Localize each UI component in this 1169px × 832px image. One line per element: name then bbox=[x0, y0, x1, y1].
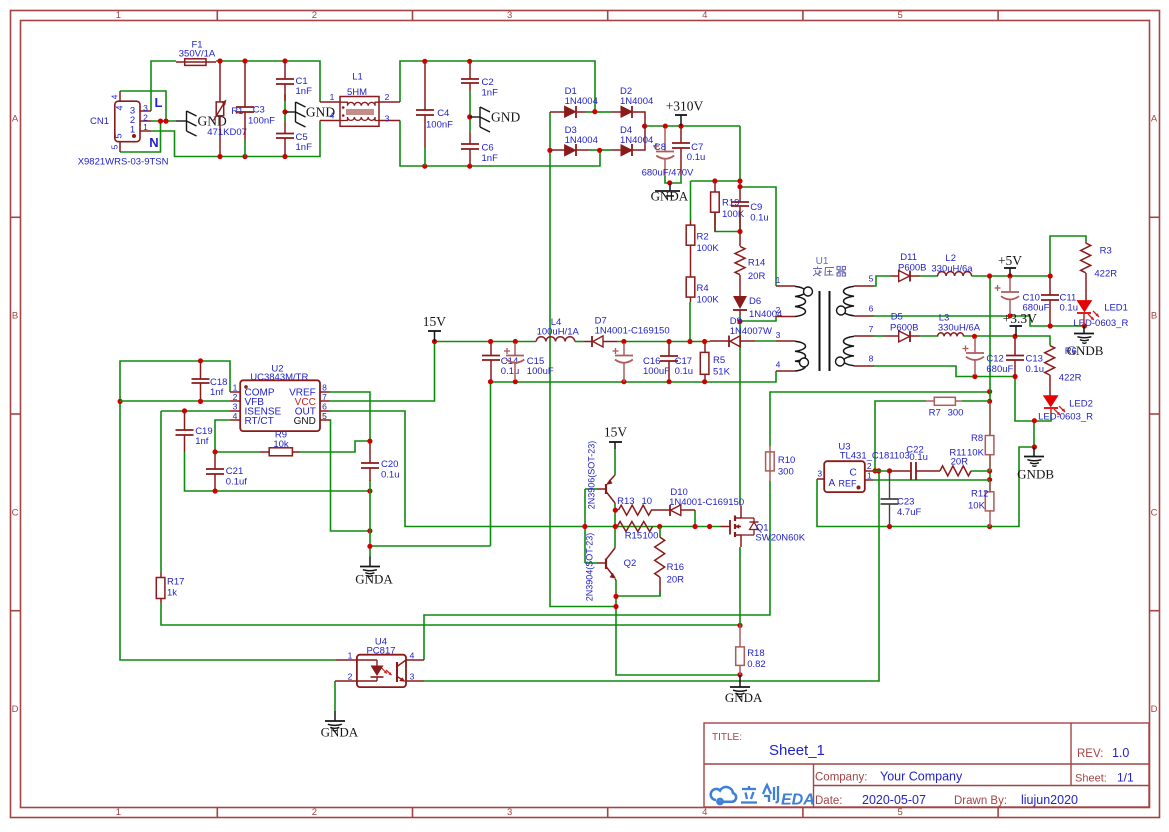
svg-text:D: D bbox=[1151, 704, 1158, 715]
wire net: TL431 anode row (pin3 to C23 bottom to R12 bottom) bbox=[817, 479, 990, 527]
wire net: TL431 cathode row (pin2, C22-20R to +5V column) bbox=[873, 470, 890, 472]
wire net: CN1 shield/earth (pins 2,4,5 to GND flag) bbox=[151, 120, 176, 122]
svg-text:8: 8 bbox=[322, 383, 327, 393]
svg-text:5: 5 bbox=[897, 10, 902, 21]
capacitor C2 bbox=[469, 63, 471, 80]
MOSFET Q1 bbox=[721, 526, 731, 528]
svg-text:R16: R16 bbox=[667, 562, 684, 573]
wire net: central GNDA column and link to primary ground rail bbox=[369, 480, 371, 557]
svg-text:4: 4 bbox=[110, 94, 120, 99]
wire net: +310V rail (bridge output, C8 C7, R19 R2 column, transformer pin1) bbox=[645, 125, 740, 127]
wire net: AC line L (CN1 pin3 to fuse to filter top rail) bbox=[151, 61, 176, 111]
svg-text:1: 1 bbox=[143, 122, 148, 132]
svg-text:GNDA: GNDA bbox=[321, 725, 359, 740]
wire net: COMP net (U2 pin1, C18 top, down to U4 pin1) bbox=[120, 361, 336, 660]
capacitor C6 bbox=[469, 132, 471, 144]
svg-text:4: 4 bbox=[702, 10, 707, 21]
wire net: R19/C9 bottom to R14 bbox=[715, 212, 740, 232]
svg-text:20R: 20R bbox=[748, 271, 766, 282]
resistor R10 bbox=[769, 452, 771, 481]
electrolytic capacitor C12 bbox=[974, 338, 976, 353]
svg-text:1nF: 1nF bbox=[482, 88, 499, 99]
svg-text:350V/1A: 350V/1A bbox=[179, 49, 216, 60]
svg-text:0.1u: 0.1u bbox=[1060, 303, 1079, 314]
svg-text:3: 3 bbox=[233, 402, 238, 412]
wire net: bridge negative rail (D1 D3 anodes down to Q2 emitter / R16 / GNDA rail) bbox=[549, 112, 551, 150]
wire net: RT/CT node (U2 pin4, C21 top, R9 left) bbox=[215, 420, 230, 452]
svg-text:5: 5 bbox=[114, 133, 124, 138]
wire net: ISENSE net (U2 pin3, C19, R17, sense row to R18 top) bbox=[161, 410, 230, 412]
fuse F1 bbox=[176, 61, 216, 63]
svg-text:15V: 15V bbox=[604, 425, 628, 440]
inductor L2 bbox=[938, 272, 972, 276]
svg-text:R4: R4 bbox=[697, 283, 709, 294]
svg-text:1: 1 bbox=[776, 275, 781, 285]
svg-text:10K: 10K bbox=[967, 448, 985, 459]
power flag 15V (driver) bbox=[614, 442, 616, 449]
svg-text:1: 1 bbox=[330, 92, 335, 102]
svg-text:422R: 422R bbox=[1059, 373, 1082, 384]
svg-text:1: 1 bbox=[233, 383, 238, 393]
svg-text:2: 2 bbox=[312, 807, 317, 818]
svg-text:4.7uF: 4.7uF bbox=[897, 507, 921, 518]
svg-text:0.1u: 0.1u bbox=[1026, 364, 1045, 375]
resistor R15 bbox=[617, 522, 653, 532]
wire net: +5V rail (D11, L2, C10, C11, R3 loop, +5V column with R8 R12 divider) bbox=[920, 275, 938, 277]
resistor R11 20R body bbox=[940, 466, 971, 476]
svg-text:C: C bbox=[850, 468, 857, 479]
capacitor C18 bbox=[200, 362, 202, 379]
svg-text:20R: 20R bbox=[667, 575, 685, 586]
resistor R3 bbox=[1085, 242, 1087, 243]
resistor R7 bbox=[926, 400, 934, 402]
ground GNDA at R18 bbox=[739, 675, 741, 687]
svg-text:X9821WRS-03-9TSN: X9821WRS-03-9TSN bbox=[78, 157, 169, 168]
svg-text:L: L bbox=[155, 95, 163, 110]
svg-text:C6: C6 bbox=[482, 143, 494, 154]
svg-text:1k: 1k bbox=[167, 588, 177, 599]
svg-text:0.1u: 0.1u bbox=[750, 213, 769, 224]
svg-text:U1: U1 bbox=[816, 256, 829, 267]
svg-text:100uF: 100uF bbox=[527, 366, 554, 377]
svg-text:SW20N60K: SW20N60K bbox=[755, 533, 805, 544]
svg-text:GNDA: GNDA bbox=[355, 572, 393, 587]
svg-text:2: 2 bbox=[776, 305, 781, 315]
diode D7 bbox=[584, 341, 592, 343]
diode D4 bbox=[611, 149, 621, 151]
resistor R12 bbox=[989, 481, 991, 492]
LED LED2 bbox=[1044, 396, 1058, 407]
svg-text:P600B: P600B bbox=[898, 263, 927, 274]
capacitor C19 bbox=[184, 412, 186, 430]
svg-text:3: 3 bbox=[507, 10, 512, 21]
common-mode choke L1 bbox=[340, 97, 379, 127]
electrolytic capacitor C10 bbox=[1009, 278, 1011, 293]
svg-text:B: B bbox=[1151, 310, 1157, 321]
wire net: C8 C7 negative to GNDA bbox=[665, 176, 681, 183]
svg-text:422R: 422R bbox=[1094, 269, 1117, 280]
ground GNDA at C8 C7 bbox=[669, 183, 671, 191]
svg-text:C: C bbox=[12, 507, 19, 518]
capacitor C4 bbox=[424, 63, 426, 111]
capacitor C23 bbox=[889, 472, 891, 499]
svg-text:Sheet_1: Sheet_1 bbox=[769, 742, 825, 759]
svg-text:6: 6 bbox=[869, 304, 874, 314]
svg-text:GNDA: GNDA bbox=[651, 189, 689, 204]
svg-text:1: 1 bbox=[348, 651, 353, 661]
capacitor C9 bbox=[739, 188, 741, 202]
diode D10 bbox=[661, 509, 670, 511]
IC U2 UC3843 bbox=[240, 380, 320, 431]
svg-text:A: A bbox=[1151, 114, 1158, 125]
svg-text:UC3843M/TR: UC3843M/TR bbox=[250, 372, 308, 383]
svg-text:5: 5 bbox=[897, 807, 902, 818]
svg-text:330uH/6a: 330uH/6a bbox=[931, 264, 973, 275]
svg-text:R8: R8 bbox=[971, 433, 983, 444]
capacitor C21 bbox=[214, 453, 216, 469]
svg-text:C4: C4 bbox=[437, 108, 449, 119]
svg-text:Your Company: Your Company bbox=[880, 770, 963, 784]
resistor R6 bbox=[1045, 345, 1055, 375]
GND flag at C2-C6 midpoint bbox=[470, 116, 480, 118]
svg-text:0.82: 0.82 bbox=[747, 659, 766, 670]
wire net: 15V rail A (flag, C14, C15, L4 left, VCC riser to U2 pin7) bbox=[435, 341, 537, 343]
wire net: drain node (D6, transformer pin2, Q1 drain) bbox=[739, 316, 741, 506]
svg-text:R13: R13 bbox=[617, 496, 634, 507]
wire net: R7 feedback row bbox=[875, 401, 926, 471]
transistor Q3 2N3906 bbox=[609, 475, 615, 482]
capacitor C11 bbox=[1049, 278, 1051, 296]
GND flag at CN1 shield bbox=[176, 120, 187, 122]
svg-text:100uH/1A: 100uH/1A bbox=[537, 327, 580, 338]
capacitor C20 bbox=[369, 442, 371, 463]
diode D2 bbox=[611, 111, 621, 113]
svg-text:4: 4 bbox=[115, 105, 125, 110]
svg-text:1N4001-C169150: 1N4001-C169150 bbox=[669, 497, 744, 508]
wire net: TL431 REF row to R8/R12 midpoint bbox=[873, 479, 990, 481]
svg-text:2: 2 bbox=[348, 672, 353, 682]
svg-text:4: 4 bbox=[776, 360, 781, 370]
resistor R9 bbox=[260, 451, 269, 453]
svg-text:1nF: 1nF bbox=[482, 153, 499, 164]
svg-text:0.1u: 0.1u bbox=[675, 366, 694, 377]
capacitor C13 bbox=[1014, 338, 1016, 356]
wire net: transformer pin7 to D5 bbox=[874, 335, 883, 337]
svg-text:0.1u: 0.1u bbox=[909, 452, 928, 463]
wire net: Q1 source to sense node bbox=[739, 547, 741, 625]
IC U3 TL431 bbox=[824, 461, 865, 492]
svg-text:C8: C8 bbox=[654, 142, 666, 153]
svg-text:2: 2 bbox=[312, 10, 317, 21]
svg-text:liujun2020: liujun2020 bbox=[1021, 793, 1078, 807]
svg-text:C23: C23 bbox=[897, 497, 914, 508]
diode D3 bbox=[550, 149, 565, 151]
svg-text:C9: C9 bbox=[750, 202, 762, 213]
svg-text:C3: C3 bbox=[253, 105, 265, 116]
varistor R1 bbox=[219, 63, 221, 102]
svg-text:5: 5 bbox=[869, 274, 874, 284]
capacitor C3 bbox=[244, 63, 246, 107]
svg-text:0.1uf: 0.1uf bbox=[226, 477, 247, 488]
svg-text:R6: R6 bbox=[1065, 346, 1077, 357]
inductor L4 bbox=[536, 337, 574, 342]
diode D9 bbox=[710, 340, 729, 342]
resistor R17 bbox=[160, 573, 162, 578]
svg-text:D: D bbox=[12, 704, 19, 715]
wire net: transformer pin5 to D11 bbox=[874, 276, 891, 286]
capacitor C7 bbox=[680, 128, 682, 143]
wire net: filtered AC top rail (L1 pin2 to C4 C2 to bridge D1-D2) bbox=[400, 61, 595, 112]
svg-text:Drawn By:: Drawn By: bbox=[954, 795, 1007, 807]
svg-text:680uF: 680uF bbox=[986, 364, 1013, 375]
svg-text:680uF/470V: 680uF/470V bbox=[642, 168, 694, 179]
wire net: analog ground row (C19 C21 bottoms to C20 column) bbox=[185, 452, 371, 491]
capacitor C17 bbox=[668, 343, 670, 356]
logo LCEDA bbox=[711, 787, 736, 804]
svg-text:10k: 10k bbox=[273, 439, 289, 450]
svg-text:5HM: 5HM bbox=[347, 87, 367, 98]
capacitor C14 bbox=[490, 343, 492, 356]
connector CN1 bbox=[115, 101, 140, 142]
svg-text:1: 1 bbox=[130, 125, 135, 136]
svg-text:5: 5 bbox=[110, 144, 120, 149]
svg-text:TL431_C181103: TL431_C181103 bbox=[840, 451, 910, 462]
wire net: D9 anode to transformer pin3 bbox=[755, 340, 776, 342]
svg-text:P600B: P600B bbox=[890, 323, 919, 334]
svg-text:100K: 100K bbox=[722, 209, 745, 220]
ground GNDA at U4 pin2 bbox=[334, 681, 336, 711]
svg-text:2: 2 bbox=[867, 461, 872, 471]
capacitor C1 bbox=[284, 63, 286, 80]
svg-text:3: 3 bbox=[143, 103, 148, 113]
resistor R2 bbox=[690, 221, 692, 226]
svg-text:8: 8 bbox=[869, 354, 874, 364]
diode D5 bbox=[883, 335, 899, 337]
svg-text:100K: 100K bbox=[697, 243, 720, 254]
svg-text:100uF: 100uF bbox=[643, 366, 670, 377]
svg-text:100nF: 100nF bbox=[426, 120, 453, 131]
wire net: primary secondary-aux ground rail (C14 C15 C16 C17 R5 bottoms, transformer pin4, GNDA riser) bbox=[491, 371, 777, 382]
svg-text:1.0: 1.0 bbox=[1112, 746, 1129, 760]
optocoupler U4 PC817 bbox=[357, 655, 406, 687]
svg-text:330uH/6A: 330uH/6A bbox=[938, 323, 981, 334]
svg-text:10: 10 bbox=[642, 496, 653, 507]
svg-text:Sheet:: Sheet: bbox=[1075, 773, 1107, 785]
svg-text:RT/CT: RT/CT bbox=[245, 416, 274, 427]
svg-text:4: 4 bbox=[330, 110, 335, 120]
svg-text:2N3904(SOT-23): 2N3904(SOT-23) bbox=[585, 533, 595, 602]
svg-text:L2: L2 bbox=[945, 253, 956, 264]
wire net: VFB row (U2 pin2, C18 bottom) bbox=[120, 400, 230, 402]
wire net: VREF node (U2 pin8, R9 right, C20 top) bbox=[330, 392, 370, 441]
wire net: U2 OUT drive row (pin6 to driver bases R13 R15 D10 to Q1 gate) bbox=[330, 411, 721, 527]
svg-text:PC817: PC817 bbox=[366, 646, 395, 657]
svg-text:+3.3V: +3.3V bbox=[1003, 311, 1037, 326]
svg-text:REF: REF bbox=[839, 479, 858, 489]
svg-text:L1: L1 bbox=[352, 72, 363, 83]
power flag 15V (rail) bbox=[434, 331, 436, 342]
svg-text:3: 3 bbox=[776, 330, 781, 340]
svg-text:GND: GND bbox=[294, 416, 316, 427]
svg-text:100: 100 bbox=[643, 531, 659, 542]
svg-text:N: N bbox=[149, 135, 158, 150]
inductor L3 bbox=[938, 333, 964, 337]
resistor R13 bbox=[618, 505, 651, 515]
transistor Q2 2N3904 bbox=[606, 548, 615, 560]
svg-text:7: 7 bbox=[869, 324, 874, 334]
svg-text:+310V: +310V bbox=[666, 99, 704, 114]
svg-text:3: 3 bbox=[385, 114, 390, 124]
wire net: R16 top hang and bottom jog bbox=[659, 527, 661, 538]
svg-text:+5V: +5V bbox=[998, 253, 1022, 268]
svg-text:R17: R17 bbox=[167, 577, 184, 588]
svg-text:300: 300 bbox=[778, 467, 794, 478]
svg-text:D5: D5 bbox=[891, 312, 903, 323]
svg-text:471KD07: 471KD07 bbox=[207, 127, 247, 138]
resistor R8 bbox=[989, 403, 991, 436]
svg-text:TITLE:: TITLE: bbox=[712, 732, 742, 743]
svg-text:D11: D11 bbox=[900, 252, 917, 263]
capacitor C22 bbox=[890, 470, 912, 472]
capacitor C5 bbox=[284, 122, 286, 134]
wire net: 15V stub at driver bbox=[614, 449, 616, 475]
svg-text:1N4004: 1N4004 bbox=[565, 96, 598, 107]
svg-text:300: 300 bbox=[948, 408, 964, 419]
svg-text:A: A bbox=[829, 478, 836, 489]
LED LED1 bbox=[1077, 301, 1091, 312]
transformer U1 bbox=[776, 285, 795, 287]
wire net: C2-C6 midpoint to GND flag bbox=[469, 91, 471, 117]
svg-text:Q2: Q2 bbox=[624, 558, 637, 569]
svg-text:R5: R5 bbox=[713, 355, 725, 366]
svg-text:EDA: EDA bbox=[781, 792, 815, 809]
resistor R19 bbox=[714, 181, 716, 192]
svg-text:R7: R7 bbox=[929, 408, 941, 419]
wire net: U4 pin3 row to TL431 cathode column bbox=[424, 471, 879, 681]
svg-text:Company:: Company: bbox=[815, 772, 867, 784]
electrolytic capacitor C8 bbox=[664, 128, 666, 152]
wire net: secondary ground rail (pin8, C12 C13 bottoms, LED2 cathode, GNDB, R12 bottom) bbox=[874, 366, 1034, 447]
diode D6 bbox=[733, 296, 747, 309]
svg-text:LED1: LED1 bbox=[1104, 303, 1128, 314]
svg-text:LED-0603_R: LED-0603_R bbox=[1038, 412, 1093, 423]
svg-text:1N4004: 1N4004 bbox=[620, 96, 653, 107]
svg-text:C20: C20 bbox=[381, 459, 398, 470]
svg-text:0.1u: 0.1u bbox=[501, 366, 520, 377]
svg-text:0.1u: 0.1u bbox=[381, 470, 400, 481]
svg-text:R15: R15 bbox=[625, 531, 642, 542]
svg-text:1: 1 bbox=[116, 10, 121, 21]
svg-text:R2: R2 bbox=[697, 232, 709, 243]
svg-text:B: B bbox=[12, 310, 18, 321]
svg-text:4: 4 bbox=[410, 651, 415, 661]
svg-text:2N3906(SOT-23): 2N3906(SOT-23) bbox=[587, 441, 597, 510]
svg-text:3: 3 bbox=[410, 672, 415, 682]
svg-text:10K: 10K bbox=[968, 501, 986, 512]
electrolytic capacitor C16 bbox=[623, 343, 625, 356]
svg-text:R3: R3 bbox=[1100, 246, 1112, 257]
svg-text:5: 5 bbox=[322, 411, 327, 421]
svg-text:7: 7 bbox=[322, 392, 327, 402]
wire net: U2 pin5 GND to central GNDA bbox=[330, 420, 370, 531]
svg-text:GND: GND bbox=[491, 110, 520, 125]
svg-text:3: 3 bbox=[817, 469, 822, 479]
svg-text:1nf: 1nf bbox=[195, 436, 209, 447]
svg-text:3: 3 bbox=[507, 807, 512, 818]
resistor R4 bbox=[690, 251, 692, 277]
svg-text:1nF: 1nF bbox=[296, 142, 313, 153]
svg-text:C: C bbox=[1151, 507, 1158, 518]
svg-text:CN1: CN1 bbox=[90, 116, 109, 127]
svg-text:GNDB: GNDB bbox=[1017, 467, 1054, 482]
svg-text:100nF: 100nF bbox=[248, 116, 275, 127]
svg-text:1: 1 bbox=[867, 471, 872, 481]
ground GNDB at LED1 bbox=[1083, 326, 1085, 334]
wire net: AC line N (CN1 pin1 to bottom rail) bbox=[151, 121, 320, 157]
wire net: C1-C5 midpoint to GND flag bbox=[284, 94, 286, 122]
svg-text:LED-0603_R: LED-0603_R bbox=[1073, 318, 1128, 329]
svg-text:R10: R10 bbox=[778, 455, 795, 466]
svg-text:1N4001-C169150: 1N4001-C169150 bbox=[595, 326, 670, 337]
svg-text:LED2: LED2 bbox=[1069, 399, 1093, 410]
svg-text:100K: 100K bbox=[697, 295, 720, 306]
title block bbox=[704, 723, 1149, 807]
ground GNDB main bbox=[1033, 447, 1035, 457]
svg-text:R12: R12 bbox=[971, 489, 988, 500]
power flag +3.3V bbox=[1015, 326, 1017, 336]
svg-text:2: 2 bbox=[233, 392, 238, 402]
wire net: snubber rail (D7 to C16 C17 R4 R5 to D9 cathode) bbox=[617, 341, 710, 343]
svg-text:51K: 51K bbox=[713, 367, 731, 378]
ground GNDA central bbox=[369, 557, 371, 567]
svg-text:1N4007W: 1N4007W bbox=[730, 326, 772, 337]
svg-text:1nF: 1nF bbox=[296, 86, 313, 97]
wire net: GNDB pin6 row (transformer pin6, C10 C11 bottoms, LED1 cathode) bbox=[874, 316, 1084, 326]
wire net: 15V rail B (L4 right to D7) bbox=[575, 341, 584, 343]
svg-text:R14: R14 bbox=[748, 258, 765, 269]
svg-text:A: A bbox=[12, 114, 19, 125]
svg-text:15V: 15V bbox=[423, 314, 447, 329]
svg-text:R18: R18 bbox=[747, 648, 764, 659]
resistor R14 bbox=[739, 232, 741, 247]
diode D11 bbox=[891, 275, 899, 277]
svg-text:Date:: Date: bbox=[815, 795, 843, 807]
svg-text:6: 6 bbox=[322, 402, 327, 412]
power flag +5V bbox=[1009, 268, 1011, 276]
svg-text:4: 4 bbox=[702, 807, 707, 818]
svg-text:0.1u: 0.1u bbox=[687, 152, 706, 163]
power flag +310V bbox=[680, 115, 682, 126]
svg-text:D6: D6 bbox=[749, 296, 761, 307]
svg-text:REV:: REV: bbox=[1077, 748, 1103, 760]
wire net: opto collector line (U4 pin4 up, row to R10, R10 top to +5V column) bbox=[424, 481, 770, 660]
svg-text:GNDA: GNDA bbox=[725, 690, 763, 705]
svg-text:1N4004: 1N4004 bbox=[620, 135, 653, 146]
svg-text:C21: C21 bbox=[226, 466, 243, 477]
svg-text:4: 4 bbox=[233, 411, 238, 421]
resistor R16 bbox=[655, 537, 665, 577]
diode D1 bbox=[550, 111, 565, 113]
svg-text:C2: C2 bbox=[482, 77, 494, 88]
wire net: filtered AC bottom rail (L1 pin3 to C4 C6 to bridge D3-D4) bbox=[400, 121, 600, 167]
svg-text:1/1: 1/1 bbox=[1117, 771, 1134, 785]
wire net: +3.3V rail (D5, L3, C12, C13, R6-LED2) bbox=[920, 335, 938, 337]
GND flag at C1-C5 midpoint bbox=[285, 111, 296, 113]
resistor R5 bbox=[704, 343, 706, 352]
svg-text:2: 2 bbox=[143, 113, 148, 123]
svg-text:2: 2 bbox=[385, 92, 390, 102]
svg-text:1N4004: 1N4004 bbox=[565, 135, 598, 146]
